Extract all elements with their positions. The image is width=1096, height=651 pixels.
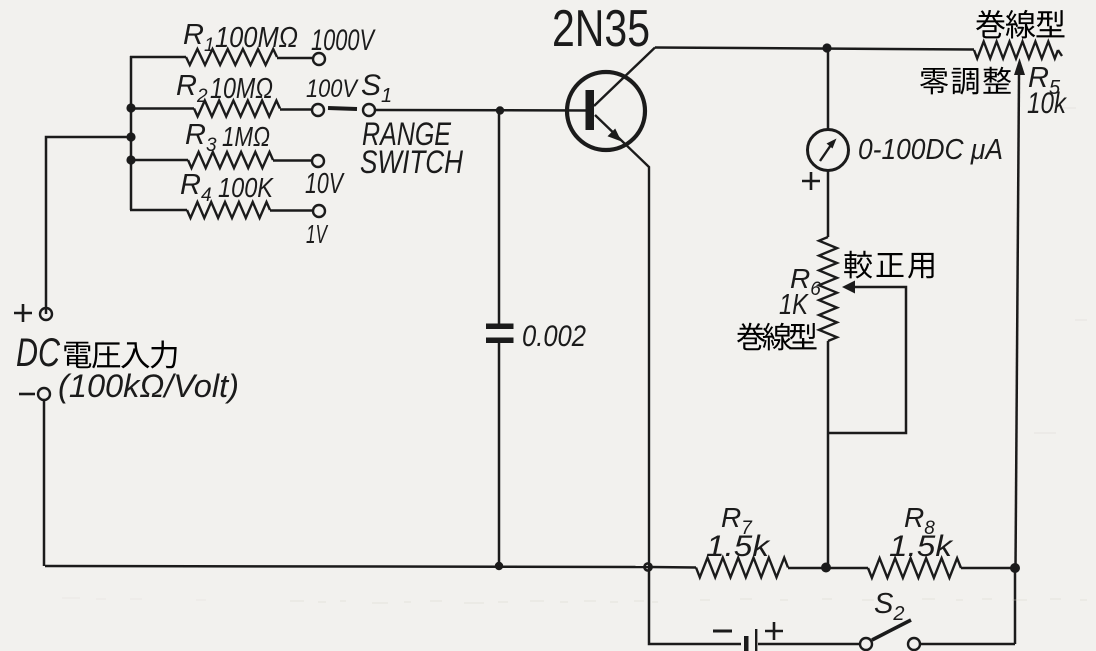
capacitor 0.002 plates xyxy=(486,324,514,344)
svg-text:1.5k: 1.5k xyxy=(706,530,771,563)
wire meter upper xyxy=(827,48,830,130)
label R8 xyxy=(904,502,935,539)
wire input stub xyxy=(46,137,131,314)
node cap top xyxy=(496,106,504,114)
wire R2 right xyxy=(280,108,312,111)
svg-text:SWITCH: SWITCH xyxy=(360,144,464,180)
svg-text:1000V: 1000V xyxy=(311,24,376,57)
label 100k per volt xyxy=(58,368,239,404)
battery B1 xyxy=(744,629,757,651)
wire S2 right xyxy=(920,643,1015,646)
wire collector top xyxy=(655,48,974,50)
node R6 bottom xyxy=(821,563,831,573)
svg-text:R1: R1 xyxy=(183,19,215,56)
label S2 xyxy=(874,588,904,625)
switch S1 contact xyxy=(363,104,375,116)
resistor R1 xyxy=(186,49,277,65)
label plus xyxy=(14,304,32,322)
wire meter lower xyxy=(827,171,830,238)
terminal 10V xyxy=(312,155,324,167)
node meter top xyxy=(822,43,831,52)
wire R2 left xyxy=(131,107,194,110)
label DC input xyxy=(16,331,177,375)
stain band xyxy=(62,108,1087,603)
transistor Q1 base bar xyxy=(586,90,595,130)
node right bottom xyxy=(1010,563,1020,573)
switch S1 blade xyxy=(328,108,357,109)
wire R1 left xyxy=(130,56,186,59)
label R2 10Mohm xyxy=(176,70,273,107)
meter M1 body xyxy=(808,130,849,171)
terminal 1000V xyxy=(313,53,325,65)
transistor Q1 emitter xyxy=(595,115,649,567)
wire R1 right xyxy=(277,57,313,60)
label R4 100K xyxy=(180,169,274,206)
label RANGE SWITCH xyxy=(360,116,464,180)
label minus xyxy=(19,393,35,396)
label R8 value xyxy=(889,530,954,563)
label meter plus xyxy=(802,172,820,190)
svg-text:100V: 100V xyxy=(306,75,359,103)
resistor R5 xyxy=(974,42,1062,59)
wire R3 left xyxy=(131,159,188,162)
potentiometer R5 wiper xyxy=(1014,58,1025,568)
node cap bottom xyxy=(495,562,503,570)
svg-text:1V: 1V xyxy=(306,219,329,249)
label R6 makisengata xyxy=(737,323,817,351)
svg-text:100MΩ: 100MΩ xyxy=(215,22,298,54)
resistor R6 xyxy=(819,237,837,341)
svg-text:10k: 10k xyxy=(1027,87,1068,120)
wire R4 left xyxy=(130,209,187,212)
label R5 kanji makisengata xyxy=(976,10,1065,39)
label 1V xyxy=(306,219,329,249)
label 0-100DC uA xyxy=(858,134,1003,166)
resistor R3 xyxy=(188,152,273,168)
terminal 100V xyxy=(312,104,324,116)
svg-text:10MΩ: 10MΩ xyxy=(210,73,273,105)
label 10k xyxy=(1027,87,1068,120)
wire R7-R8 xyxy=(788,567,868,570)
svg-text:DC: DC xyxy=(16,331,61,375)
wire left bus vertical xyxy=(130,56,133,210)
svg-text:0-100DC μA: 0-100DC μA xyxy=(858,134,1003,166)
svg-text:2N35: 2N35 xyxy=(552,0,650,58)
switch S2 contact left xyxy=(860,638,872,650)
svg-text:1.5k: 1.5k xyxy=(889,530,954,563)
label 100V xyxy=(306,75,359,103)
node bus-R2 xyxy=(126,103,135,112)
meter M1 needle xyxy=(820,139,837,162)
label kousei-you xyxy=(844,251,933,279)
resistor R4 xyxy=(187,202,270,218)
wire S1 to base xyxy=(374,109,592,112)
label S1 xyxy=(361,69,392,107)
wire right vertical lower xyxy=(1014,568,1017,644)
svg-text:R2: R2 xyxy=(176,70,208,107)
svg-text:1MΩ: 1MΩ xyxy=(222,121,270,152)
svg-text:S1: S1 xyxy=(361,69,392,107)
wire bottom loop left xyxy=(649,567,741,644)
terminal minus input xyxy=(38,388,50,400)
svg-text:R3: R3 xyxy=(185,119,217,156)
transistor Q1 emitter arrow xyxy=(608,129,622,142)
wire minus down xyxy=(43,400,46,566)
svg-text:100K: 100K xyxy=(218,172,274,203)
svg-text:0.002: 0.002 xyxy=(522,320,586,353)
potentiometer R6 wiper xyxy=(829,281,906,434)
wire cap upper xyxy=(498,110,501,324)
svg-text:(100kΩ/Volt): (100kΩ/Volt) xyxy=(58,368,239,404)
switch S2 contact right xyxy=(908,638,920,650)
label battery plus xyxy=(765,622,783,640)
node bus-stub xyxy=(126,132,135,141)
wire bottom xyxy=(45,566,650,567)
switch S2 lever xyxy=(872,620,911,640)
node bus-R3 xyxy=(126,155,135,164)
label 10V xyxy=(305,168,345,200)
label 2N35 xyxy=(552,0,650,58)
svg-text:S2: S2 xyxy=(874,588,904,625)
label R1 100Mohm xyxy=(183,19,298,56)
wire battery to S2 xyxy=(758,643,861,646)
wire R7 left xyxy=(650,566,696,569)
terminal 1V xyxy=(313,205,325,217)
resistor R8 xyxy=(868,558,961,578)
transistor Q1 collector xyxy=(594,48,655,107)
label zero adjust xyxy=(920,67,1011,95)
label 1k xyxy=(779,289,809,321)
label R7 xyxy=(721,502,753,539)
wire R3 right xyxy=(273,159,312,162)
node emitter bottom xyxy=(644,563,651,570)
svg-text:1K: 1K xyxy=(779,289,809,321)
svg-text:R4: R4 xyxy=(180,169,212,206)
label R5 xyxy=(1028,62,1061,99)
resistor R7 xyxy=(696,558,788,578)
label R3 1Mohm xyxy=(185,119,270,156)
label battery minus xyxy=(713,630,732,633)
label 1000V xyxy=(311,24,376,57)
wire R8 right xyxy=(961,567,1015,570)
wire R4 right xyxy=(270,209,313,212)
transistor Q1 body xyxy=(567,72,645,150)
svg-text:10V: 10V xyxy=(305,168,345,200)
wire cap lower xyxy=(498,343,501,566)
resistor R2 xyxy=(194,101,280,117)
label 0.002 xyxy=(522,320,586,353)
terminal plus input xyxy=(40,308,52,320)
label R7 value xyxy=(706,530,771,563)
label R6 xyxy=(790,263,821,300)
wire R6 bottom xyxy=(827,341,830,567)
